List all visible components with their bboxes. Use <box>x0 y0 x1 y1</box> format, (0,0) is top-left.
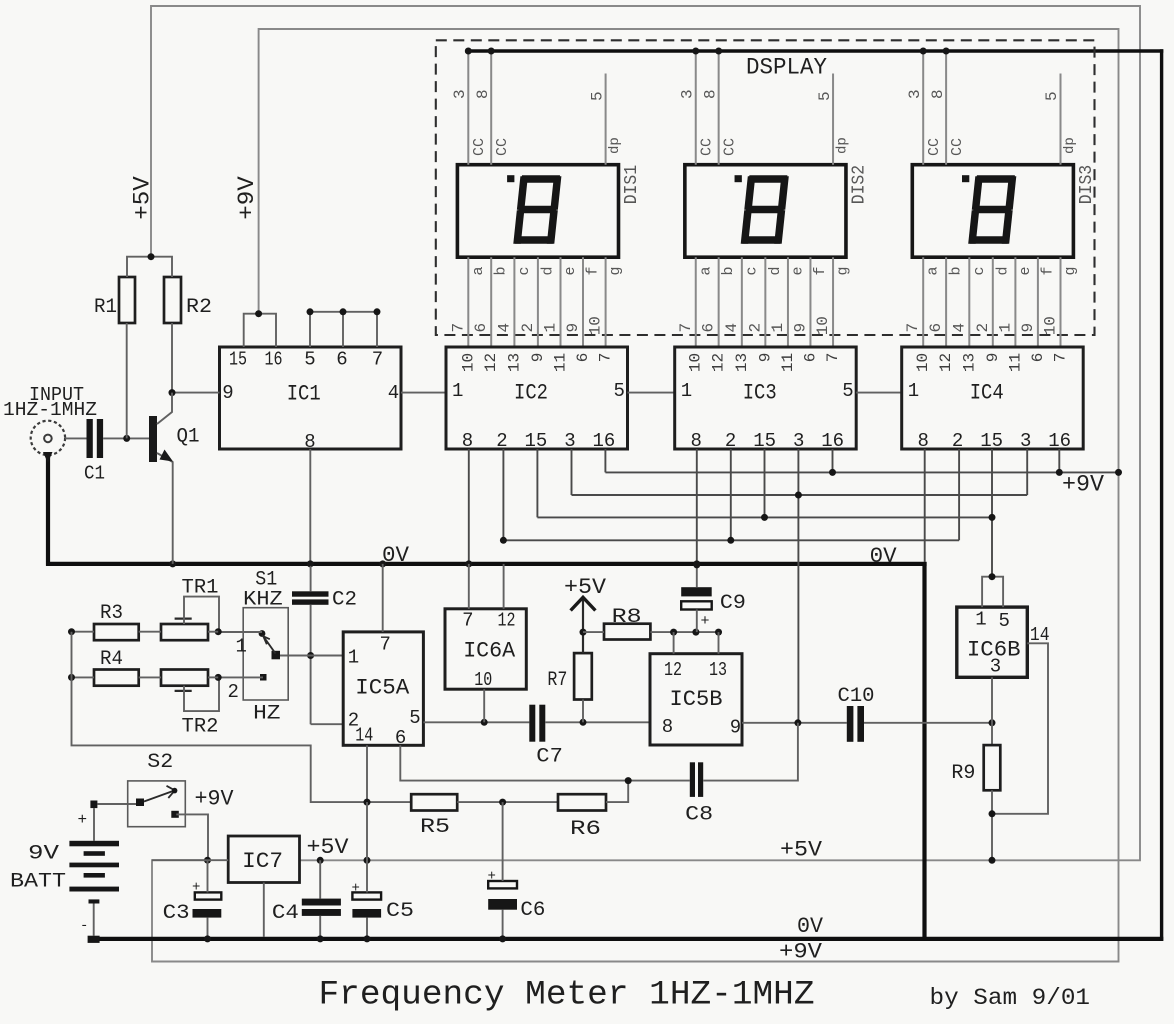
svg-text:8: 8 <box>929 89 947 99</box>
junction R7 bottom on C7-IC5B line <box>580 719 587 726</box>
wire reset line horizontal <box>503 539 959 541</box>
display DIS1 decimal point dot <box>507 175 514 182</box>
gate IC6B box <box>957 607 1028 677</box>
wire DIS3 segment e to IC <box>1014 257 1016 347</box>
junction IC5A pin7 on 0V bus <box>379 560 386 567</box>
svg-text:CC: CC <box>471 138 488 156</box>
capacitor C3 top plate outlined <box>195 892 222 899</box>
svg-text:7: 7 <box>824 353 842 363</box>
svg-text:R2: R2 <box>186 296 212 319</box>
svg-text:CC: CC <box>721 138 738 156</box>
wire DIS2 segment c to IC <box>741 257 743 347</box>
svg-text:15: 15 <box>524 430 547 452</box>
wire thick right-side vertical from CC bus to bottom <box>1160 49 1163 941</box>
svg-text:+9V: +9V <box>779 939 823 964</box>
svg-text:+5V: +5V <box>130 176 156 220</box>
svg-text:7: 7 <box>597 353 615 363</box>
svg-text:3: 3 <box>678 89 696 99</box>
svg-text:f: f <box>812 266 829 275</box>
wire IC3 pin3 riser and latch line down to IC5B output node <box>797 449 799 723</box>
wire C3 bottom lead <box>207 918 209 937</box>
junction C2/S1/IC5A pin1 node <box>307 652 314 659</box>
junction +9V drop on 15-16 bracket <box>255 310 262 317</box>
junction IC2 pin8 on 0V bus <box>465 560 472 567</box>
wire IC6A pin 7 to 0V bus <box>468 564 470 609</box>
wire DIS2 pin3 CC to bus <box>695 51 697 165</box>
connector J1 input BNC outer circle <box>31 421 65 455</box>
junction R6 riser on C8 line <box>625 777 632 784</box>
wire IC5B pin 12 riser <box>673 632 675 654</box>
display group dashed box DSPLAY <box>436 40 1095 335</box>
junction DIS3 pin3 on CC bus <box>920 48 927 55</box>
svg-text:6: 6 <box>927 323 945 333</box>
capacitor C10 left plate <box>847 706 854 742</box>
svg-text:1: 1 <box>975 609 986 631</box>
svg-text:e: e <box>1017 266 1034 275</box>
capacitor C3 bottom plate <box>193 909 222 918</box>
svg-text:6: 6 <box>336 349 347 371</box>
svg-text:g: g <box>607 266 624 275</box>
wire R8 left lead <box>583 631 604 633</box>
svg-text:5: 5 <box>588 91 606 101</box>
wire C1 to Q1 base <box>103 437 149 439</box>
svg-text:5: 5 <box>1043 91 1061 101</box>
svg-text:c: c <box>516 266 533 275</box>
wire DIS1 segment a to IC <box>467 257 469 347</box>
svg-text:12: 12 <box>664 659 682 681</box>
junction C6 on 0V bus <box>499 935 506 942</box>
svg-text:12: 12 <box>498 609 516 631</box>
svg-text:16: 16 <box>265 349 283 371</box>
switch S2 right contact square <box>171 811 179 818</box>
svg-text:S2: S2 <box>147 751 173 774</box>
capacitor C4 top plate <box>302 899 341 906</box>
junction R9 on +5V rail <box>989 857 996 864</box>
capacitor C1 right plate <box>97 419 103 458</box>
wire S2 output to +9V node <box>176 814 208 860</box>
svg-text:5: 5 <box>409 707 420 729</box>
junction R4 left node <box>68 674 75 681</box>
display DIS2 decimal point dot <box>735 175 742 182</box>
svg-text:9V: 9V <box>28 842 59 865</box>
wire thick display CC bus top <box>465 49 1163 52</box>
wire IC3 pin15 riser <box>764 449 766 517</box>
svg-text:+9V: +9V <box>234 176 260 220</box>
svg-text:13: 13 <box>733 353 751 372</box>
switch S2 arm <box>144 791 173 802</box>
capacitor C8 right plate <box>698 762 703 797</box>
wire C6 top lead from R5/R6 node <box>502 802 504 881</box>
switch S2 arm tip dot <box>172 788 178 794</box>
wire IC1 pins 15-16 bracket <box>244 314 276 347</box>
capacitor C5 top plate outlined <box>352 892 381 899</box>
svg-text:15: 15 <box>229 349 247 371</box>
svg-text:IC7: IC7 <box>242 849 283 874</box>
resistor R5 box <box>411 794 457 810</box>
capacitor C7 right plate <box>539 705 545 742</box>
junction DIS2 pin8 on CC bus <box>715 48 722 55</box>
svg-text:-: - <box>80 918 88 934</box>
wire IC3 pin2 riser <box>730 449 732 540</box>
wire IC3 pin8 to 0V bus <box>696 449 698 564</box>
svg-text:R3: R3 <box>100 602 123 625</box>
svg-text:8: 8 <box>474 89 492 99</box>
svg-text:d: d <box>767 266 784 275</box>
wire R6 right lead up to C8 line <box>606 781 628 803</box>
junction IC2 pin2 corner <box>500 537 507 544</box>
svg-text:dp: dp <box>1062 137 1078 154</box>
switch S1 position-1 contact dot <box>259 630 266 637</box>
svg-text:b: b <box>948 266 965 275</box>
svg-text:DIS2: DIS2 <box>850 165 870 205</box>
svg-text:R9: R9 <box>951 762 975 785</box>
wire IC4 pin3 riser <box>1026 449 1028 495</box>
svg-text:14: 14 <box>355 725 373 747</box>
wire R1 bottom to base wire <box>126 323 128 438</box>
wire input center to C1 <box>65 437 87 439</box>
junction IC3 pin8 on 0V bus <box>693 560 700 567</box>
wire C6 bottom lead <box>502 910 504 937</box>
svg-text:2: 2 <box>519 323 537 333</box>
wire R4 to TR2 <box>139 676 161 678</box>
svg-text:R8: R8 <box>612 606 642 629</box>
wire DIS1 segment d to IC <box>537 257 539 347</box>
svg-text:+: + <box>78 811 88 829</box>
svg-text:12: 12 <box>710 353 728 372</box>
svg-text:8: 8 <box>701 89 719 99</box>
wire IC5B pin 9 output to C10 <box>742 722 847 724</box>
wire DIS2 segment g to IC <box>832 257 834 347</box>
svg-text:C6: C6 <box>520 899 545 922</box>
svg-text:DIS1: DIS1 <box>622 165 642 205</box>
wire IC5A pin 7 to 0V bus <box>382 564 384 632</box>
svg-text:e: e <box>562 266 579 275</box>
svg-text:a: a <box>697 266 714 275</box>
resistor R1 box <box>119 277 135 323</box>
wire DIS1 segment b to IC <box>490 257 492 347</box>
switch S2 left contact square <box>136 799 144 807</box>
svg-text:TR2: TR2 <box>182 716 219 739</box>
capacitor C10 right plate <box>857 706 864 742</box>
switch S1 arm arrowhead <box>263 636 270 644</box>
svg-text:7: 7 <box>1052 353 1070 363</box>
svg-text:0V: 0V <box>382 543 410 568</box>
svg-text:9: 9 <box>984 353 1002 363</box>
svg-text:f: f <box>1039 266 1056 275</box>
junction IC1 pin7 bracket <box>374 308 381 315</box>
junction IC1 pin6 bracket <box>340 308 347 315</box>
svg-text:9: 9 <box>529 353 547 363</box>
wire IC1 pin 4 to IC2 pin 1 <box>401 392 446 394</box>
svg-text:9: 9 <box>730 717 741 739</box>
svg-text:1: 1 <box>681 380 692 402</box>
wire C4 bottom lead <box>319 916 321 937</box>
wire DIS2 segment a to IC <box>695 257 697 347</box>
display DIS3 decimal point dot <box>962 175 969 182</box>
svg-text:6: 6 <box>574 353 592 363</box>
trimmer TR2 wiper bar <box>175 690 192 692</box>
svg-text:7: 7 <box>462 609 473 631</box>
switch S1 common contact square <box>272 651 281 660</box>
svg-text:+: + <box>192 880 200 896</box>
svg-text:10: 10 <box>459 353 477 372</box>
svg-text:C4: C4 <box>272 902 299 925</box>
trimmer TR1 wiper bar <box>175 617 192 619</box>
wire C10 right to R9 top node <box>864 722 992 724</box>
junction IC6A pin10 on pin5 line <box>481 719 488 726</box>
wire DIS1 pin3 CC to bus <box>467 51 469 165</box>
wire C2 top lead to 0V bus <box>310 566 312 591</box>
svg-text:3: 3 <box>990 656 1001 678</box>
wire DIS3 segment c to IC <box>968 257 970 347</box>
svg-text:+: + <box>352 881 360 897</box>
wire DIS2 pin8 CC to bus <box>718 51 720 165</box>
junction TR1 output node <box>215 628 222 635</box>
wire R3 left lead <box>72 631 95 633</box>
capacitor C9 bottom plate outlined <box>681 601 712 609</box>
wire DIS2 segment f to IC <box>809 257 811 347</box>
junction C5 on 0V bus <box>364 935 371 942</box>
wire left node down and across to R5 input <box>72 632 412 802</box>
wire C7 to IC5B pin 8 <box>545 721 650 723</box>
transistor Q1 emitter arrow <box>160 450 174 462</box>
svg-text:4: 4 <box>495 323 513 333</box>
battery BT1 plate short 3 <box>89 899 100 903</box>
battery BT1 plate long 3 <box>69 887 119 892</box>
wire C4 top lead <box>319 860 321 898</box>
capacitor C2 top plate <box>292 591 329 596</box>
svg-text:11: 11 <box>1006 353 1024 372</box>
svg-text:9: 9 <box>1019 323 1037 333</box>
junction C9 on 0V bus <box>693 561 700 568</box>
wire IC4 pin2 riser <box>958 449 960 540</box>
svg-text:3: 3 <box>1020 430 1031 452</box>
svg-text:7: 7 <box>904 323 922 333</box>
svg-text:4: 4 <box>723 323 741 333</box>
wire C5 lead from R5 node through +5V rail <box>366 802 368 892</box>
junction latch riser on pin9 line <box>794 719 801 726</box>
wire C9 bottom lead <box>696 610 698 633</box>
svg-text:6: 6 <box>472 323 490 333</box>
display DIS3 seven-segment module box <box>912 165 1073 258</box>
wire DIS3 pin8 CC to bus <box>945 51 947 165</box>
svg-text:7: 7 <box>677 323 695 333</box>
svg-text:12: 12 <box>482 353 500 372</box>
wire R7 bottom lead <box>582 700 584 723</box>
svg-text:7: 7 <box>380 634 391 656</box>
svg-text:IC3: IC3 <box>743 381 777 406</box>
svg-text:2: 2 <box>952 430 963 452</box>
svg-text:1: 1 <box>769 323 787 333</box>
wire IC5A pin 5 output to C7 <box>423 721 529 723</box>
wire IC1 pin 9 input from Q1 collector <box>172 392 220 394</box>
svg-text:16: 16 <box>821 430 844 452</box>
svg-text:a: a <box>925 266 942 275</box>
junction S2/IC7 input/C3 node <box>204 857 211 864</box>
wire R8 right lead to IC5B pin12/13 bracket <box>650 631 718 633</box>
wire IC2 pin16 riser <box>604 449 606 472</box>
junction DIS2 pin3 on CC bus <box>692 48 699 55</box>
svg-text:8: 8 <box>917 430 928 452</box>
junction C10 to IC6B pin3/R9 node <box>989 719 996 726</box>
svg-text:7: 7 <box>372 349 383 371</box>
wire R7 top lead / +5V arrow shaft <box>582 599 584 653</box>
battery BT1 plate short 1 <box>84 851 105 856</box>
wire IC6B pins 1-5 top bracket <box>982 577 1003 607</box>
svg-text:g: g <box>835 266 852 275</box>
svg-text:+5V: +5V <box>564 575 607 600</box>
wire C2 bottom lead down to IC5A pin2 line <box>310 605 312 724</box>
wire DIS3 segment f to IC <box>1037 257 1039 347</box>
resistor R8 box <box>604 624 650 640</box>
svg-text:10: 10 <box>914 353 932 372</box>
junction C5 lead on +5V rail <box>364 857 371 864</box>
svg-text:c: c <box>743 266 760 275</box>
resistor R7 box <box>574 653 592 699</box>
wire DIS3 pin3 CC to bus <box>922 51 924 165</box>
wire DIS3 segment a to IC <box>922 257 924 347</box>
svg-text:f: f <box>585 266 602 275</box>
wire S1 common to IC5A pin 1 <box>280 655 344 657</box>
transistor Q1 emitter lead <box>157 453 173 564</box>
wire DIS1 segment g to IC <box>605 257 607 347</box>
wire +9V net border (S2 via left riser, bottom rail, right riser, top rail to IC1) <box>152 29 1119 962</box>
trimmer TR2 wiper arm loop to right terminal <box>184 677 219 711</box>
svg-text:R5: R5 <box>420 816 450 839</box>
svg-text:0V: 0V <box>797 914 824 939</box>
junction TR2 output node <box>215 674 222 681</box>
gate IC5A box <box>343 632 423 745</box>
junction IC5B pin12 riser <box>670 629 677 636</box>
display DIS1 digit 8 segments <box>513 175 561 244</box>
svg-text:5: 5 <box>816 91 834 101</box>
svg-text:C9: C9 <box>720 592 746 615</box>
display DIS3 digit 8 segments <box>968 175 1016 244</box>
switch S2 arm arrowhead <box>167 786 175 798</box>
wire thick input ground stub <box>43 452 53 463</box>
junction +9V line to right riser <box>1115 469 1122 476</box>
junction +5V drop at R1/R2 bracket <box>148 253 155 260</box>
trimmer TR2 box <box>161 670 208 686</box>
counter IC2 box <box>446 347 628 449</box>
trimmer TR1 wiper arm loop to right terminal <box>184 597 219 632</box>
svg-text:8: 8 <box>462 430 473 452</box>
svg-text:2: 2 <box>725 430 736 452</box>
capacitor C2 bottom plate <box>292 599 329 604</box>
svg-text:+: + <box>488 869 496 885</box>
wire HZ line from TR2 node to S1 pos2 <box>218 676 263 678</box>
svg-text:C2: C2 <box>332 589 357 612</box>
svg-text:5: 5 <box>304 349 315 371</box>
svg-text:+5V: +5V <box>307 835 350 860</box>
wire DIS1 segment c to IC <box>513 257 515 347</box>
op IC1 box <box>220 347 402 449</box>
wire DIS2 segment b to IC <box>718 257 720 347</box>
connector J1 input center pin <box>44 435 52 443</box>
junction C9 bottom <box>692 629 699 636</box>
junction IC4 pin16 on +9V line <box>1056 469 1063 476</box>
junction R9/pin14 node <box>989 810 996 817</box>
wire IC4 pin8 to 0V corner <box>924 449 926 562</box>
wire IC2 pin8 to 0V bus <box>468 449 470 564</box>
svg-text:CC: CC <box>698 138 715 156</box>
wire thick 0V input drop <box>46 452 50 566</box>
wire IC6B pin 3 down to R9 <box>991 677 993 745</box>
svg-text:b: b <box>720 266 737 275</box>
wire C3 top lead <box>207 860 209 892</box>
svg-text:C3: C3 <box>163 902 190 925</box>
svg-text:8: 8 <box>690 430 701 452</box>
svg-text:dp: dp <box>607 137 623 154</box>
svg-text:11: 11 <box>552 353 570 372</box>
svg-text:Q1: Q1 <box>177 426 200 449</box>
svg-text:15: 15 <box>980 430 1003 452</box>
junction IC1 pin5 bracket <box>307 308 314 315</box>
junction R3 left node <box>68 628 75 635</box>
svg-text:1: 1 <box>996 323 1014 333</box>
resistor R9 box <box>984 745 1001 790</box>
wire clock line horizontal <box>537 516 991 518</box>
switch S2 box <box>128 781 186 827</box>
junction IC4 pin15 corner on clock line <box>989 514 996 521</box>
wire IC2 pin3 riser <box>571 449 573 495</box>
switch S1 position-2 contact square <box>260 674 267 681</box>
svg-text:2: 2 <box>746 323 764 333</box>
wire IC5B pin 13 riser <box>718 632 720 654</box>
svg-text:3: 3 <box>451 89 469 99</box>
svg-text:e: e <box>789 266 806 275</box>
wire +5V net border (IC7 out, right side, top, down to R1/R2) <box>151 6 1140 860</box>
wire IC6A pin 12 to 0V bus <box>503 564 505 609</box>
svg-text:C8: C8 <box>685 804 713 827</box>
wire R5 to R6 <box>457 801 558 803</box>
wire R1-R2 top bracket <box>127 257 172 277</box>
wire R3 to TR1 <box>139 631 161 633</box>
wire battery + to S2 <box>97 803 136 805</box>
svg-text:Frequency Meter 1HZ-1MHZ: Frequency Meter 1HZ-1MHZ <box>319 977 815 1015</box>
wire DIS3 pin5 dp stub <box>1060 74 1062 165</box>
svg-text:2: 2 <box>974 323 992 333</box>
capacitor C5 bottom plate <box>352 909 381 918</box>
junction R1 bottom on base wire <box>123 435 130 442</box>
wire DIS1 segment e to IC <box>560 257 562 347</box>
svg-text:15: 15 <box>753 430 776 452</box>
junction Q1 collector node <box>169 389 176 396</box>
wire DIS3 segment d to IC <box>992 257 994 347</box>
svg-text:d: d <box>994 266 1011 275</box>
svg-text:HZ: HZ <box>253 703 280 726</box>
wire DIS3 segment b to IC <box>945 257 947 347</box>
junction IC3 pin16 on +9V line <box>829 469 836 476</box>
svg-text:6: 6 <box>801 353 819 363</box>
wire thick 0V right vertical <box>922 562 926 941</box>
wire IC6A pin 10 down to C7 line <box>483 689 485 722</box>
wire DIS2 segment e to IC <box>787 257 789 347</box>
svg-text:1: 1 <box>236 636 247 658</box>
junction R7/R8/arrow node <box>580 629 587 636</box>
svg-text:5: 5 <box>842 380 853 402</box>
svg-text:13: 13 <box>505 353 523 372</box>
junction IC4 pin15 drop on bracket <box>989 573 996 580</box>
svg-text:IC5B: IC5B <box>670 687 723 712</box>
capacitor C6 bottom plate <box>488 899 517 910</box>
capacitor C9 top plate (to 0V) <box>681 587 712 596</box>
wire IC7 ground lead <box>263 883 265 938</box>
svg-text:R4: R4 <box>100 648 123 671</box>
counter IC4 box <box>902 347 1083 449</box>
svg-text:9: 9 <box>756 353 774 363</box>
junction IC3 pin2 on reset line <box>727 537 734 544</box>
